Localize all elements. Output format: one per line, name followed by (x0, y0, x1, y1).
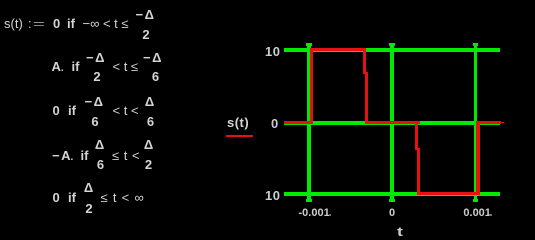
seg 0-level left (284, 121, 312, 124)
seg +10 level (311, 48, 366, 51)
row 1: s(t) := 0 if -inf < t <= -D/2 (4, 17, 23, 30)
falling edge at t=+D/6 upper (415, 121, 418, 150)
row 3: 0 if -D/6 < t < D/6 (53, 104, 60, 117)
falling edge at t=-D/6 lower (365, 72, 368, 124)
horizontal gridline y=+10 (284, 48, 500, 52)
rising edge at t=+0.001 (476, 121, 479, 195)
falling edge at t=+D/6 lower (417, 148, 420, 195)
vertical gridline t=+0.001 (474, 43, 478, 202)
row 4: -A if D/6 <= t < D/2 (52, 149, 73, 164)
row 2: A if -D/2 < t <= -D/6 (52, 60, 64, 75)
seg 0-level right (477, 121, 501, 124)
vertical gridline t=0 (390, 43, 394, 202)
row 5: 0 if D/2 <= t < inf (53, 191, 60, 204)
legend red bar (226, 135, 253, 138)
falling edge at t=-D/6 upper (363, 48, 366, 74)
vertical gridline t=-0.001 (307, 43, 311, 202)
legend text s(t) (227, 116, 249, 129)
horizontal gridline y=0 (284, 121, 500, 125)
seg -10 level (418, 192, 478, 195)
seg 0-level mid (366, 121, 420, 124)
horizontal gridline y=-10 (284, 192, 500, 196)
rising edge at t=-0.001 (310, 48, 313, 124)
